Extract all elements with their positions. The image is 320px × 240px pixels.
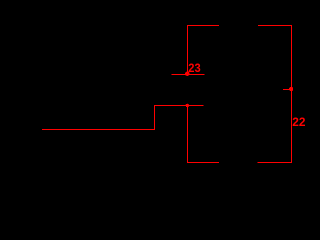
wire bottom edge right segment — [258, 162, 292, 164]
dimension line at step top — [154, 105, 204, 107]
wire top edge left segment — [187, 25, 219, 27]
node dot at dimension 22 arrow — [289, 87, 293, 91]
wire right edge vertical — [291, 25, 293, 163]
wire bottom edge left segment — [187, 162, 219, 164]
dimension line for 23 — [172, 74, 205, 76]
wire left edge lower vertical — [187, 105, 189, 163]
node dot on step top line — [186, 104, 189, 107]
svg-text:22: 22 — [292, 115, 305, 129]
node dot at dimension 23 arrow — [185, 72, 189, 76]
wire step vertical — [154, 105, 156, 130]
svg-text:23: 23 — [188, 61, 201, 75]
dimension tick for 22 — [283, 89, 292, 91]
wire top edge right segment — [258, 25, 292, 27]
wire bottom left horizontal — [42, 129, 155, 131]
wire left edge upper vertical — [187, 25, 189, 74]
